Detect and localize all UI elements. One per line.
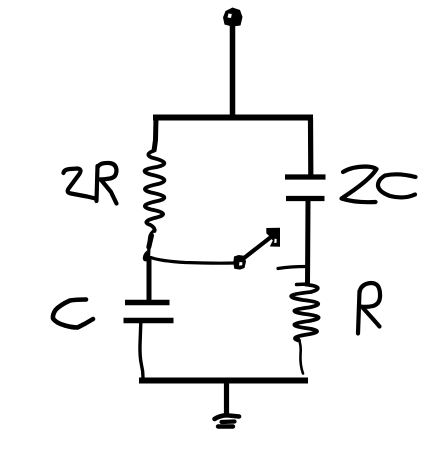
wire: left upper vertical into 2R xyxy=(154,118,156,151)
capacitor 2C: top plate xyxy=(285,174,326,179)
wire: bottom horizontal bus xyxy=(139,378,308,384)
resistor R (zigzag) xyxy=(291,285,318,341)
label 2C: digit 2 xyxy=(342,167,377,203)
wire: right vertical (2C top lead) xyxy=(308,118,313,175)
capacitor 2C: bottom plate xyxy=(286,196,325,201)
resistor 2R (zigzag) xyxy=(145,151,165,232)
wiper arrow left (pointing up at 2R) xyxy=(143,230,155,261)
label R (right) xyxy=(358,283,380,333)
capacitor C: top plate xyxy=(125,300,170,305)
wiper arrowhead (pointing up-right) xyxy=(266,228,280,247)
label 2R: letter R xyxy=(97,163,117,204)
label C (left) xyxy=(53,300,93,328)
node: wiper junction (small square blob) xyxy=(233,255,246,270)
ground: stem xyxy=(224,381,229,415)
ground: bar 2 xyxy=(222,419,235,424)
wire: C bottom tail xyxy=(140,323,143,378)
ground: bar 3 xyxy=(218,424,233,428)
wire: wiper horizontal run xyxy=(151,258,234,264)
wire: right vertical (2C bottom lead to R) xyxy=(305,201,311,286)
terminal node blob (top input) xyxy=(223,8,243,27)
label 2C: letter C xyxy=(378,174,416,197)
wire: top vertical stem xyxy=(230,24,236,118)
wire: R bottom tail xyxy=(299,339,304,374)
wire: wiper tap to right branch xyxy=(278,267,306,269)
wire: C top lead (from wiper junction) xyxy=(147,257,152,301)
label 2R: digit 2 xyxy=(64,169,96,199)
resistor R top tick xyxy=(297,282,309,286)
wiper arrow diagonal shaft xyxy=(242,237,272,260)
capacitor C: bottom plate xyxy=(124,318,174,323)
wire: top horizontal bus xyxy=(153,115,313,121)
ground: bar 1 xyxy=(215,415,240,419)
